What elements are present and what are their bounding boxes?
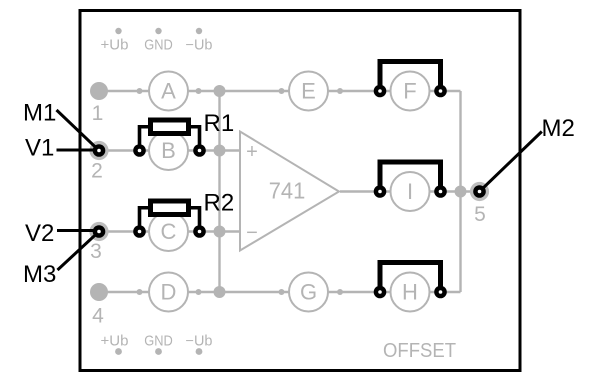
- svg-text:3: 3: [90, 240, 102, 263]
- top +Ub power dot: [115, 28, 121, 34]
- resistor R2 body: [151, 201, 189, 215]
- junction dot row1: [214, 85, 226, 97]
- svg-text:E: E: [301, 79, 316, 104]
- jumper H left terminal: [374, 286, 387, 299]
- resistor R1 body: [151, 120, 189, 134]
- socket I: [391, 172, 430, 211]
- jumper over F: [380, 62, 441, 92]
- jumper I right terminal: [434, 185, 447, 198]
- wire middle junction vertical: [218, 91, 220, 292]
- svg-text:M2: M2: [542, 115, 575, 142]
- socket E: [289, 72, 328, 111]
- socket G: [289, 273, 328, 312]
- jumper F left terminal: [374, 85, 387, 98]
- socket F: [391, 72, 430, 111]
- top -Ub power dot: [196, 28, 202, 34]
- svg-text:+Ub: +Ub: [101, 334, 129, 350]
- svg-text:741: 741: [269, 178, 306, 204]
- pad 1: [90, 82, 108, 100]
- svg-text:1: 1: [92, 102, 104, 125]
- svg-text:M3: M3: [23, 261, 56, 288]
- wire row1 horizontal: [99, 90, 461, 92]
- svg-text:+Ub: +Ub: [101, 38, 129, 54]
- bottom GND power dot: [155, 348, 162, 355]
- svg-text:−Ub: −Ub: [186, 334, 213, 350]
- pad 5: [470, 182, 489, 201]
- svg-text:−Ub: −Ub: [186, 38, 213, 54]
- wire dot row4 a: [137, 289, 143, 295]
- svg-text:H: H: [402, 280, 418, 305]
- svg-text:I: I: [407, 179, 413, 204]
- wire row2 horizontal: [99, 149, 240, 151]
- socket D: [149, 273, 188, 312]
- pad 3: [89, 222, 108, 241]
- svg-text:2: 2: [91, 160, 103, 183]
- resistor R1 right terminal: [193, 144, 206, 157]
- jumper H right terminal: [434, 286, 447, 299]
- pad 2: [89, 141, 108, 160]
- svg-text:R1: R1: [204, 110, 235, 137]
- svg-text:F: F: [403, 79, 416, 104]
- wire dot row1 c: [279, 88, 285, 94]
- junction dot row4: [214, 286, 226, 298]
- wire dot row4 b: [196, 289, 202, 295]
- junction dot row2: [214, 145, 226, 157]
- terminal pad 2: [93, 144, 106, 157]
- wire dot row1 b: [196, 88, 202, 94]
- svg-text:GND: GND: [144, 334, 173, 350]
- wire dot row1 d: [337, 88, 343, 94]
- wire dot row1 a: [137, 88, 143, 94]
- socket C: [149, 212, 188, 251]
- board outline: [80, 11, 520, 371]
- junction dot output row: [455, 186, 467, 198]
- socket B: [149, 131, 188, 170]
- svg-text:V2: V2: [25, 220, 54, 247]
- svg-text:R2: R2: [204, 190, 235, 217]
- V2 probe line: [57, 229, 99, 232]
- svg-text:GND: GND: [144, 38, 173, 54]
- bottom -Ub power dot: [196, 348, 203, 355]
- wire right vertical: [459, 91, 461, 292]
- svg-text:D: D: [161, 280, 177, 305]
- resistor R1 left terminal: [133, 144, 146, 157]
- junction dot row3: [214, 226, 226, 238]
- svg-text:C: C: [161, 219, 177, 244]
- svg-text:5: 5: [474, 203, 486, 226]
- jumper over I: [380, 162, 441, 192]
- jumper I left terminal: [374, 185, 387, 198]
- wire row3 horizontal: [99, 230, 240, 232]
- terminal pad 3: [93, 225, 106, 238]
- svg-text:B: B: [161, 138, 176, 163]
- resistor R2 left terminal: [133, 225, 146, 238]
- M3 probe line: [58, 232, 100, 271]
- wire opamp output row: [340, 190, 480, 192]
- top GND power dot: [155, 28, 161, 34]
- pad 4: [90, 283, 108, 301]
- terminal pad 5: [473, 185, 486, 198]
- M2 probe line: [480, 132, 542, 192]
- socket H: [391, 273, 430, 312]
- wire row4 horizontal: [99, 291, 461, 293]
- socket A: [149, 72, 188, 111]
- svg-text:M1: M1: [23, 100, 56, 127]
- svg-text:−: −: [246, 222, 258, 244]
- bottom +Ub power dot: [115, 348, 122, 355]
- svg-text:4: 4: [92, 305, 104, 328]
- svg-text:A: A: [161, 79, 176, 104]
- resistor R2 right terminal: [193, 225, 206, 238]
- wire dot row4 c: [279, 289, 285, 295]
- resistor R1 leads: [140, 127, 200, 151]
- M1 probe line: [57, 110, 100, 151]
- svg-text:OFFSET: OFFSET: [383, 339, 456, 362]
- jumper over H: [380, 263, 441, 293]
- resistor R2 leads: [140, 208, 200, 232]
- V1 probe line: [57, 149, 100, 152]
- op-amp U1 triangle: [240, 132, 339, 251]
- svg-text:G: G: [300, 280, 317, 305]
- jumper F right terminal: [434, 85, 447, 98]
- wire dot row4 d: [337, 289, 343, 295]
- svg-text:+: +: [246, 141, 258, 163]
- svg-text:V1: V1: [25, 135, 54, 162]
